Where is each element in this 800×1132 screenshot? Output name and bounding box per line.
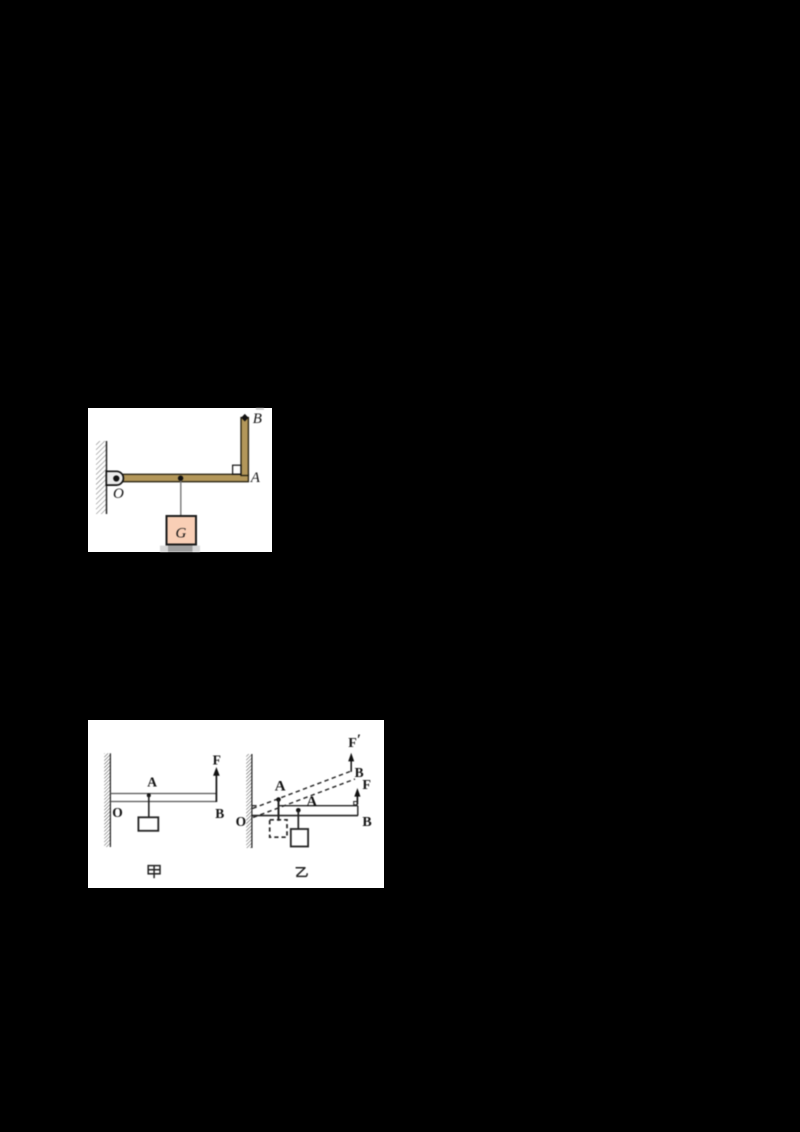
yi lever end cap [357, 806, 359, 816]
svg-text:F: F [348, 736, 357, 751]
svg-text:A: A [306, 794, 317, 810]
svg-text:O: O [113, 486, 124, 502]
svg-text:B: B [362, 815, 371, 830]
svg-text:A: A [147, 775, 157, 790]
jia lever end cap [215, 794, 217, 802]
svg-text:O: O [112, 805, 123, 820]
svg-text:B: B [253, 411, 262, 427]
jia wall hatching [104, 753, 110, 847]
figure 2: two lever panels jia and yi [88, 720, 384, 888]
yi weight box [291, 829, 308, 847]
diamond marker at B [241, 414, 248, 422]
yi right-angle mark at F [354, 802, 357, 805]
jia caption glyph [148, 866, 160, 879]
yi lever bottom edge [252, 815, 358, 817]
gray artifact above B [256, 408, 264, 410]
wall line [106, 441, 108, 514]
yi force F' arrow [350, 760, 352, 772]
svg-text:′: ′ [357, 732, 361, 748]
horizontal bar OA [123, 474, 249, 481]
jia string [148, 795, 150, 817]
string to G [180, 481, 182, 517]
jia wall line [109, 753, 111, 847]
yi dot on dashed lever [276, 797, 281, 802]
weight block G [167, 516, 197, 545]
yi dashed lever lower edge [253, 779, 355, 818]
jia weight box [138, 817, 158, 831]
svg-text:A: A [250, 470, 261, 486]
jia point A dot [147, 793, 151, 797]
yi force F arrow [356, 794, 358, 805]
jia lever bottom edge [110, 801, 216, 803]
yi dashed lever upper edge [253, 772, 351, 809]
pivot bracket at O [106, 471, 123, 485]
gray base dark [168, 546, 193, 552]
svg-text:F: F [362, 778, 371, 793]
svg-text:F: F [213, 753, 221, 768]
figure 1: L-shaped lever OAB hinged to wall with weight G [88, 408, 272, 552]
mid dot on bar [178, 476, 183, 481]
pivot dot [113, 475, 119, 481]
wall hatching [96, 441, 106, 514]
svg-text:G: G [176, 525, 187, 541]
yi dot on bar [296, 808, 301, 813]
svg-text:A: A [275, 778, 286, 794]
vertical bar AB [241, 418, 248, 476]
yi wall line [251, 754, 253, 848]
yi wall hatching [246, 754, 252, 848]
yi dashed-position string [278, 800, 280, 821]
yi dashed weight box [270, 820, 287, 837]
yi caption glyph [296, 868, 308, 877]
yi string [297, 810, 299, 829]
svg-text:B: B [215, 806, 224, 821]
yi lever top stub at wall [252, 805, 257, 807]
gray base light [160, 546, 200, 552]
svg-text:O: O [236, 814, 247, 829]
yi lever top edge [279, 805, 358, 807]
jia force F arrow [215, 773, 217, 802]
right-angle mark [233, 465, 241, 474]
jia lever top edge [110, 793, 216, 795]
